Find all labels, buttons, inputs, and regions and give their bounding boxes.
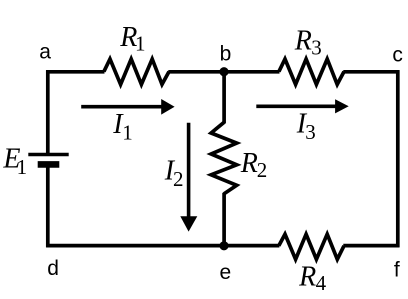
resistor R2 zigzag (vertical) [211, 122, 237, 193]
svg-text:3: 3 [311, 35, 322, 59]
svg-text:1: 1 [122, 121, 133, 145]
battery E1 long plate [28, 153, 68, 157]
svg-text:R: R [298, 261, 316, 292]
current arrow I3 head [335, 99, 349, 113]
svg-text:d: d [47, 257, 59, 280]
svg-text:1: 1 [17, 155, 28, 179]
resistor R3 zigzag [279, 59, 344, 84]
svg-text:e: e [220, 261, 232, 284]
current arrow I2 head [180, 216, 197, 231]
node b junction dot [219, 67, 228, 76]
svg-text:2: 2 [173, 167, 184, 191]
wire: middle b to R2 [222, 70, 226, 123]
svg-text:f: f [394, 259, 400, 282]
battery E1 short thick plate [38, 161, 60, 168]
svg-text:1: 1 [135, 32, 146, 56]
current arrow I3 shaft [256, 105, 337, 109]
current arrow I1 head [161, 99, 174, 115]
wire: top segment R1 to R3 (through node b) [168, 70, 279, 74]
svg-text:3: 3 [305, 120, 316, 144]
wire: middle R2 to e [222, 193, 226, 248]
svg-text:R: R [240, 148, 258, 179]
node e junction dot [219, 241, 228, 250]
svg-text:4: 4 [316, 271, 327, 295]
current arrow I1 shaft [81, 105, 163, 109]
wire: bottom segment R4 to f [343, 244, 399, 248]
current arrow I2 shaft [187, 123, 191, 218]
wire: top segment R3 to c [343, 70, 399, 74]
wire: top segment a to R1 [46, 70, 104, 74]
resistor R4 zigzag [279, 234, 344, 259]
svg-text:2: 2 [257, 158, 268, 182]
svg-text:c: c [392, 44, 403, 67]
wire: left upper (a to battery) [46, 70, 50, 154]
wire: right side c to f [396, 70, 400, 247]
wire: bottom segment d to R4 (through node e) [46, 244, 279, 248]
svg-text:R: R [294, 25, 312, 56]
svg-text:a: a [39, 40, 51, 63]
wire: left lower (battery to d) [46, 164, 50, 247]
svg-text:b: b [220, 42, 232, 65]
resistor R1 zigzag [104, 59, 169, 84]
